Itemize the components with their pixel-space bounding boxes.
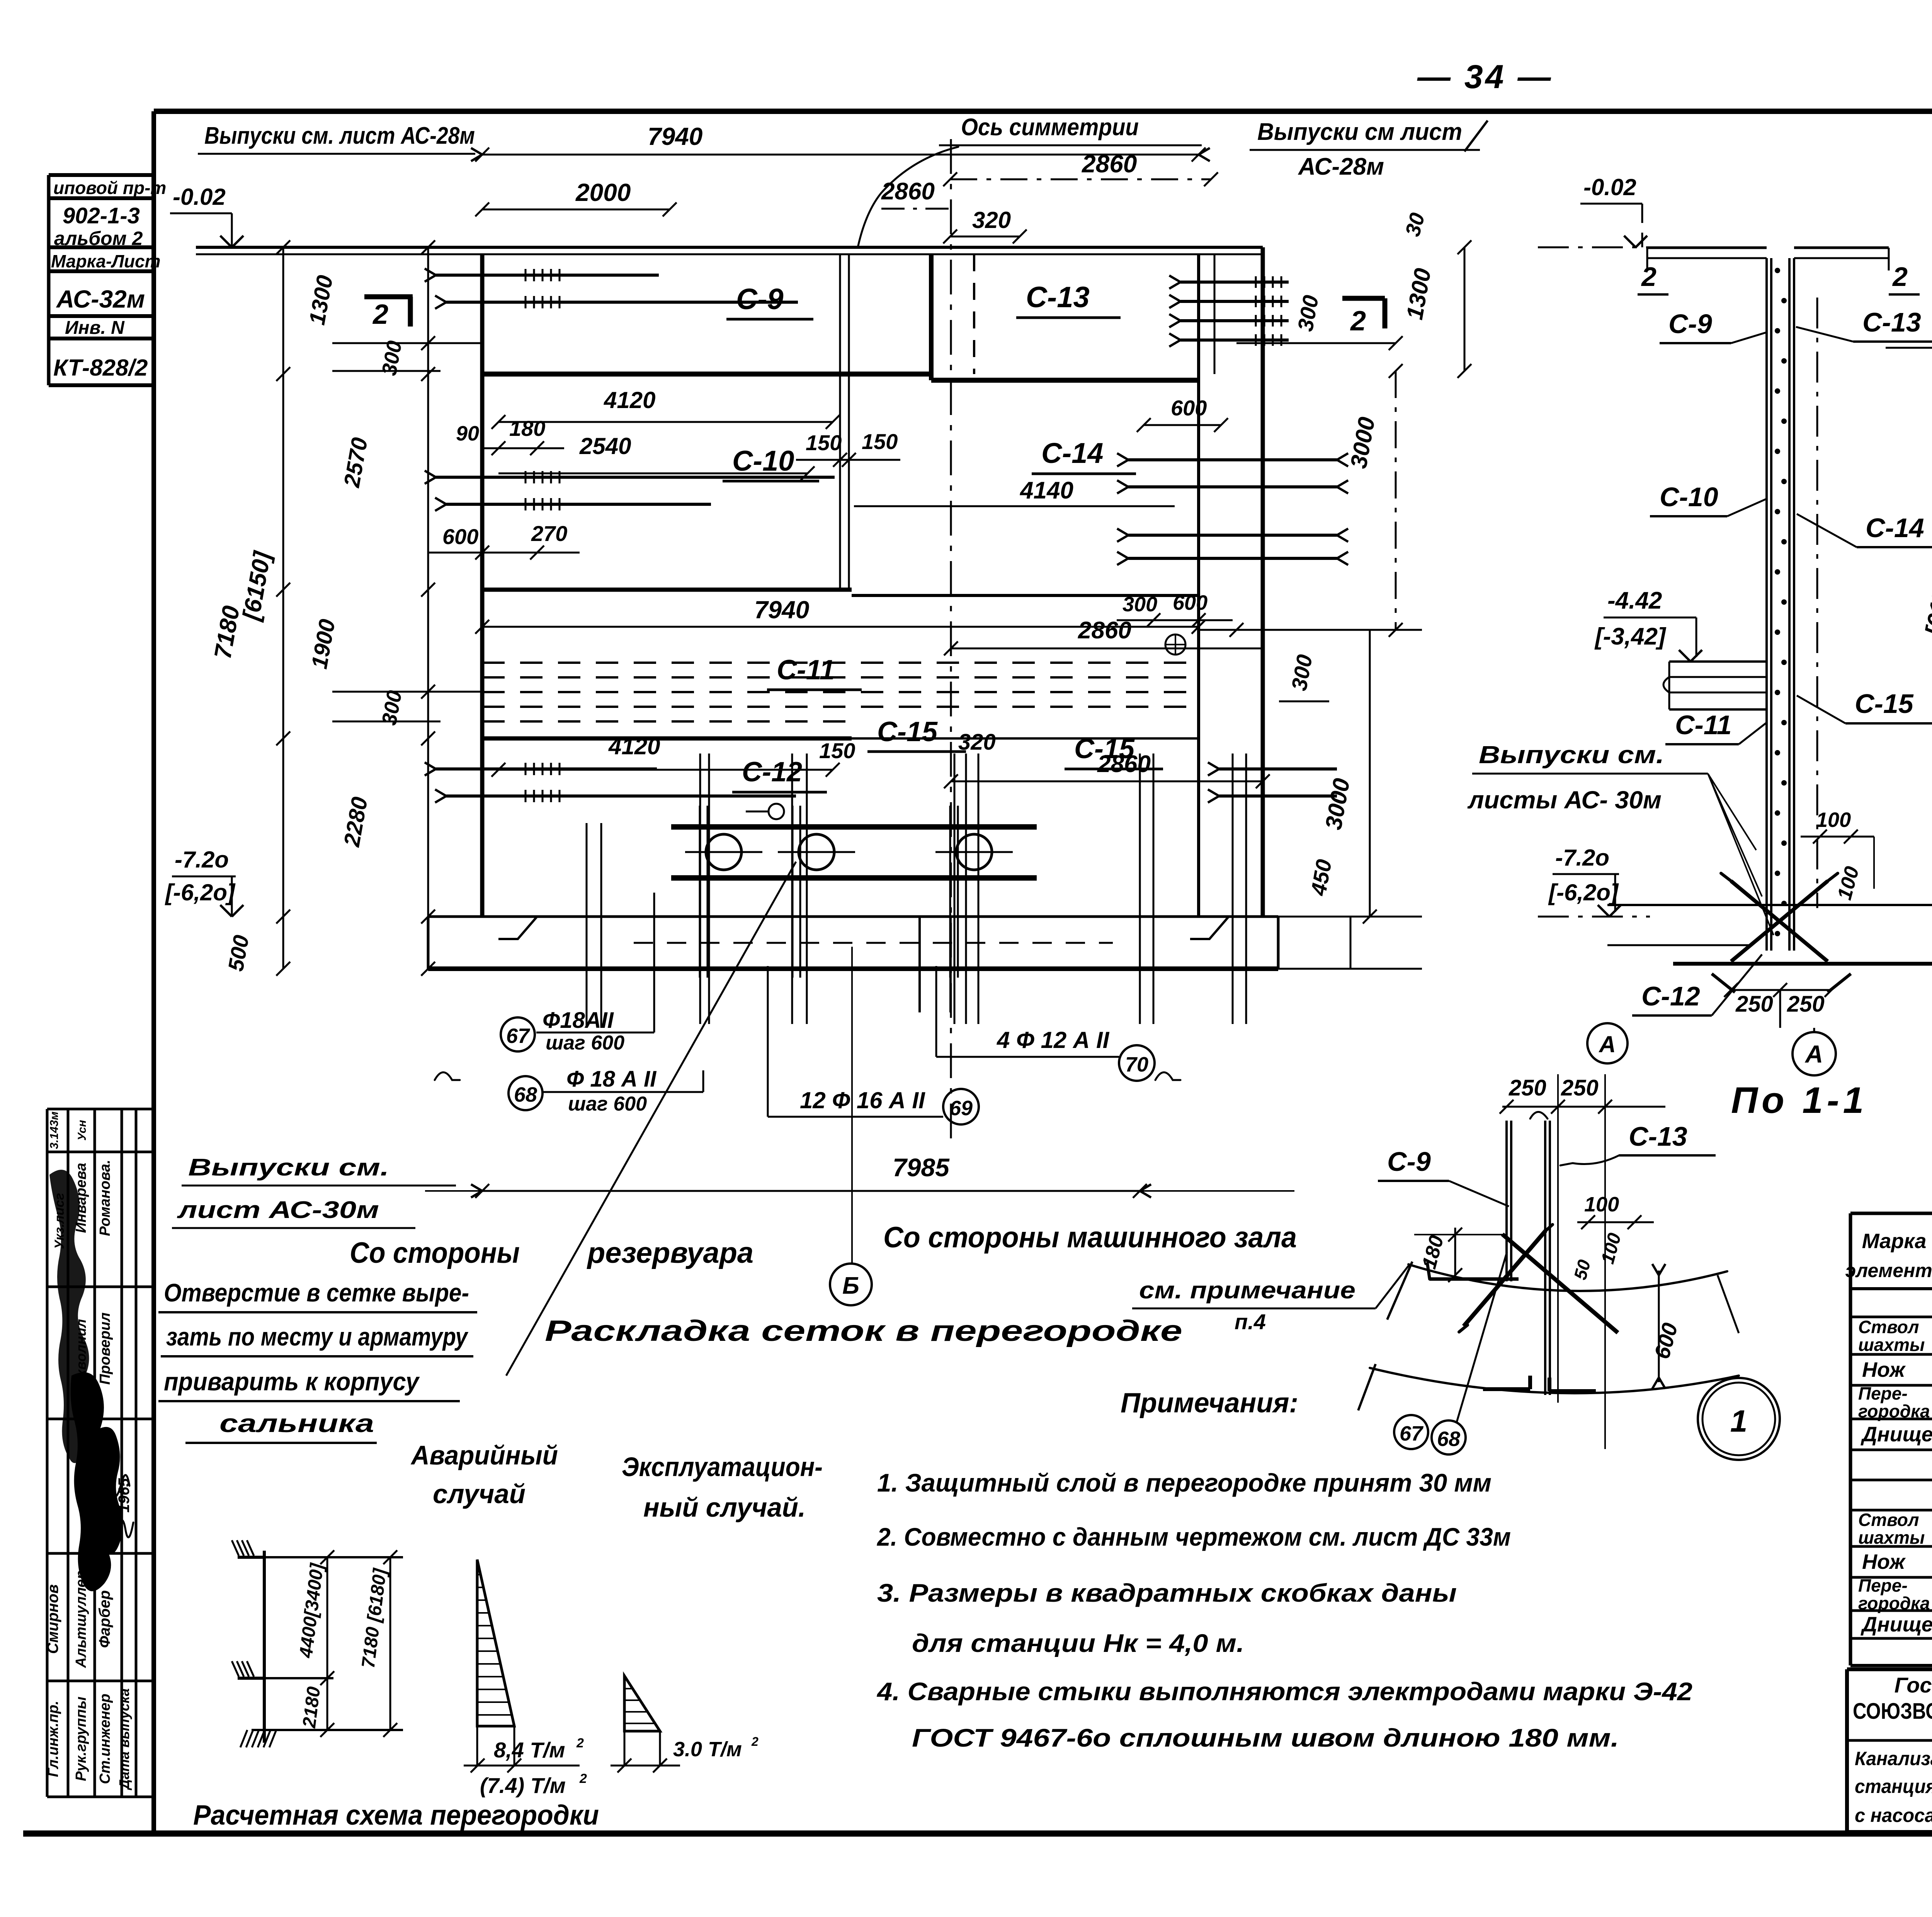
svg-text:АС-32м: АС-32м: [56, 285, 145, 313]
svg-text:300: 300: [1122, 593, 1157, 616]
svg-text:городка: городка: [1858, 1401, 1930, 1421]
svg-text:станция на 3 агрегата: станция на 3 агрегата: [1855, 1776, 1932, 1797]
svg-text:сальника: сальника: [219, 1409, 374, 1437]
svg-text:2860: 2860: [881, 178, 935, 205]
svg-text:8,4 Т/м: 8,4 Т/м: [494, 1738, 565, 1762]
svg-text:Со стороны: Со стороны: [350, 1237, 520, 1269]
svg-text:шахты: шахты: [1858, 1335, 1925, 1355]
svg-text:А: А: [1598, 1031, 1616, 1057]
svg-text:С-9: С-9: [1387, 1146, 1431, 1177]
svg-text:2000: 2000: [575, 179, 631, 206]
svg-text:С-13: С-13: [1862, 307, 1921, 337]
svg-text:Эксплуатацион-: Эксплуатацион-: [622, 1452, 823, 1482]
svg-text:[-6,2о]: [-6,2о]: [165, 879, 236, 905]
svg-text:Днище: Днище: [1861, 1613, 1932, 1636]
svg-text:С-10: С-10: [1660, 482, 1718, 512]
svg-text:-7.2о: -7.2о: [1555, 845, 1609, 871]
svg-text:лист АС-30м: лист АС-30м: [177, 1197, 379, 1223]
svg-text:С-9: С-9: [736, 283, 783, 316]
svg-text:С-12: С-12: [742, 757, 802, 788]
svg-text:С-15: С-15: [877, 716, 938, 747]
svg-text:Инв. N: Инв. N: [65, 318, 125, 338]
svg-text:4140: 4140: [1019, 477, 1073, 504]
svg-text:67: 67: [1400, 1422, 1424, 1445]
svg-text:альбом 2: альбом 2: [54, 228, 143, 249]
svg-text:шаг 600: шаг 600: [568, 1093, 647, 1115]
svg-text:Расчетная схема перегородки: Расчетная схема перегородки: [193, 1800, 599, 1831]
svg-text:С-12: С-12: [1641, 981, 1700, 1011]
svg-text:Выпуски см лист: Выпуски см лист: [1257, 119, 1462, 145]
svg-text:АС-28м: АС-28м: [1298, 153, 1384, 180]
svg-text:Гл.инж.пр.: Гл.инж.пр.: [45, 1701, 61, 1777]
svg-text:Романова.: Романова.: [97, 1160, 113, 1236]
svg-text:Днище: Днище: [1861, 1423, 1932, 1446]
svg-text:Рук.группы: Рук.группы: [73, 1697, 89, 1781]
svg-text:ГОСТ 9467-6о сплошным ш: ГОСТ 9467-6о сплошным швом длиною 180 мм…: [912, 1723, 1619, 1752]
svg-text:7985: 7985: [893, 1153, 950, 1182]
svg-text:Фарбер: Фарбер: [96, 1590, 113, 1648]
svg-text:150: 150: [819, 738, 855, 763]
svg-text:2: 2: [372, 299, 388, 330]
svg-text:-7.2о: -7.2о: [175, 847, 229, 873]
svg-text:4120: 4120: [604, 387, 655, 413]
svg-text:4. Сварные стыки выполня: 4. Сварные стыки выполняются электродами…: [876, 1677, 1692, 1706]
svg-text:600: 600: [1173, 591, 1207, 614]
svg-text:Дата выпуска: Дата выпуска: [116, 1688, 132, 1790]
svg-text:Примечания:: Примечания:: [1121, 1388, 1298, 1419]
svg-text:7940: 7940: [648, 122, 702, 150]
svg-text:Нож: Нож: [1862, 1358, 1906, 1381]
svg-text:Ф 18 А II: Ф 18 А II: [566, 1067, 657, 1092]
svg-text:2. Совместно с данным ч: 2. Совместно с данным чертежом см. лист …: [876, 1522, 1511, 1551]
svg-text:— 34 —: — 34 —: [1417, 58, 1553, 95]
svg-text:2860: 2860: [1082, 150, 1137, 178]
svg-text:Ось симметрии: Ось симметрии: [961, 114, 1139, 141]
svg-text:С-15: С-15: [1074, 733, 1135, 764]
svg-text:68: 68: [514, 1083, 537, 1106]
svg-text:600: 600: [1171, 396, 1207, 420]
svg-text:69: 69: [949, 1097, 973, 1120]
svg-text:100: 100: [1816, 808, 1851, 832]
svg-text:Пере-: Пере-: [1858, 1383, 1908, 1403]
svg-text:-0.02: -0.02: [173, 184, 226, 210]
svg-text:резервуара: резервуара: [587, 1237, 753, 1269]
svg-text:С-11: С-11: [1675, 710, 1732, 740]
svg-text:Усн: Усн: [76, 1120, 88, 1141]
svg-text:-4.42: -4.42: [1607, 587, 1662, 614]
svg-text:приварить к корпусу: приварить к корпусу: [164, 1367, 420, 1396]
svg-text:-0.02: -0.02: [1583, 174, 1636, 200]
svg-text:1. Защитный слой в пере: 1. Защитный слой в перегородке принят 30…: [877, 1468, 1492, 1497]
svg-text:Выпуски см.: Выпуски см.: [188, 1154, 389, 1181]
svg-text:СОЮЗВОДОКАНАЛПРОЕКТ: СОЮЗВОДОКАНАЛПРОЕКТ: [1853, 1699, 1932, 1724]
svg-text:ный случай.: ный случай.: [643, 1492, 806, 1522]
svg-text:По 1-1: По 1-1: [1731, 1080, 1867, 1121]
svg-text:случай: случай: [433, 1479, 526, 1509]
svg-text:С-14: С-14: [1041, 437, 1103, 469]
svg-text:Госстрой СССР: Госстрой СССР: [1895, 1673, 1932, 1697]
svg-text:С-11: С-11: [777, 655, 835, 685]
svg-text:150: 150: [862, 429, 898, 454]
svg-text:листы АС- 30м: листы АС- 30м: [1467, 786, 1662, 814]
svg-text:Проверил: Проверил: [97, 1313, 113, 1385]
svg-text:Ф18АII: Ф18АII: [543, 1008, 614, 1033]
svg-text:1: 1: [1730, 1404, 1748, 1438]
svg-text:с насосами 2½ НФ или 4НФ: с насосами 2½ НФ или 4НФ: [1855, 1805, 1932, 1826]
svg-text:250: 250: [1509, 1075, 1546, 1101]
svg-text:180: 180: [509, 416, 545, 441]
svg-text:шаг 600: шаг 600: [546, 1032, 624, 1054]
svg-text:С-9: С-9: [1668, 309, 1712, 339]
svg-text:250: 250: [1787, 992, 1825, 1017]
svg-text:Отверстие в сетке выре-: Отверстие в сетке выре-: [164, 1278, 469, 1307]
svg-text:С-15: С-15: [1855, 689, 1914, 719]
svg-text:2: 2: [751, 1735, 759, 1749]
svg-text:3. Размеры в квадратных: 3. Размеры в квадратных скобках даны: [877, 1579, 1457, 1607]
svg-text:зать по месту и арматуру: зать по месту и арматуру: [166, 1322, 469, 1351]
svg-text:А: А: [1804, 1040, 1823, 1068]
svg-text:Ствол: Ствол: [1858, 1510, 1919, 1530]
svg-text:п.4: п.4: [1235, 1310, 1266, 1334]
svg-text:Смирнов: Смирнов: [44, 1584, 61, 1654]
svg-text:(7.4) Т/м: (7.4) Т/м: [480, 1773, 566, 1798]
svg-text:С-10: С-10: [732, 445, 794, 477]
svg-text:2: 2: [576, 1736, 584, 1750]
svg-text:элемента: элемента: [1845, 1260, 1932, 1281]
svg-text:Со стороны машинного зала: Со стороны машинного зала: [883, 1221, 1297, 1254]
svg-text:С-13: С-13: [1629, 1121, 1687, 1152]
svg-text:Выпуски см.: Выпуски см.: [1479, 741, 1664, 769]
svg-text:2: 2: [1892, 262, 1908, 292]
svg-text:2: 2: [1641, 262, 1656, 292]
svg-text:2540: 2540: [579, 433, 631, 459]
svg-text:шахты: шахты: [1858, 1527, 1925, 1548]
svg-text:[-6,2о]: [-6,2о]: [1548, 879, 1619, 905]
svg-text:12 Ф 16 А II: 12 Ф 16 А II: [800, 1087, 925, 1113]
svg-text:320: 320: [972, 207, 1011, 233]
svg-text:Канализационная насосная: Канализационная насосная: [1855, 1748, 1932, 1769]
svg-text:иповой пр-т: иповой пр-т: [53, 178, 166, 198]
svg-text:150: 150: [806, 430, 842, 455]
svg-text:Выпуски см. лист АС-28м: Выпуски см. лист АС-28м: [204, 122, 475, 149]
svg-text:Аварийный: Аварийный: [410, 1440, 558, 1470]
svg-text:2: 2: [1350, 306, 1366, 337]
svg-text:70: 70: [1125, 1053, 1148, 1076]
svg-text:Пере-: Пере-: [1858, 1575, 1908, 1596]
svg-text:[-3,42]: [-3,42]: [1594, 623, 1667, 650]
svg-text:С-13: С-13: [1026, 281, 1090, 314]
svg-text:7940: 7940: [754, 596, 809, 624]
svg-text:Нож: Нож: [1862, 1550, 1906, 1573]
svg-text:902-1-3: 902-1-3: [63, 203, 140, 228]
svg-text:90: 90: [456, 422, 479, 445]
svg-text:Раскладка сеток в перегород: Раскладка сеток в перегородке: [545, 1315, 1182, 1347]
svg-text:3.0 Т/м: 3.0 Т/м: [673, 1738, 742, 1761]
svg-text:68: 68: [1437, 1427, 1460, 1451]
svg-text:Марка-Лист: Марка-Лист: [51, 251, 161, 271]
svg-text:для станции Нк = 4,0 м.: для станции Нк = 4,0 м.: [912, 1629, 1244, 1657]
svg-text:Б: Б: [842, 1272, 859, 1299]
svg-text:4120: 4120: [608, 733, 660, 759]
svg-text:см. примечание: см. примечание: [1139, 1277, 1355, 1304]
svg-text:С-14: С-14: [1866, 513, 1924, 543]
svg-text:250: 250: [1561, 1075, 1599, 1101]
svg-text:Ст.инженер: Ст.инженер: [97, 1694, 113, 1784]
svg-text:Марка: Марка: [1862, 1230, 1927, 1253]
svg-text:250: 250: [1735, 992, 1773, 1017]
svg-text:270: 270: [531, 521, 567, 546]
svg-text:67: 67: [506, 1024, 531, 1048]
svg-text:3.143м: 3.143м: [48, 1111, 61, 1149]
svg-text:КТ-828/2: КТ-828/2: [53, 355, 148, 381]
svg-text:4 Ф 12 А II: 4 Ф 12 А II: [997, 1027, 1110, 1053]
svg-text:городка: городка: [1858, 1593, 1930, 1613]
svg-text:600: 600: [442, 524, 478, 549]
svg-text:100: 100: [1584, 1193, 1619, 1216]
svg-text:2: 2: [579, 1771, 587, 1786]
svg-text:Ствол: Ствол: [1858, 1317, 1919, 1337]
